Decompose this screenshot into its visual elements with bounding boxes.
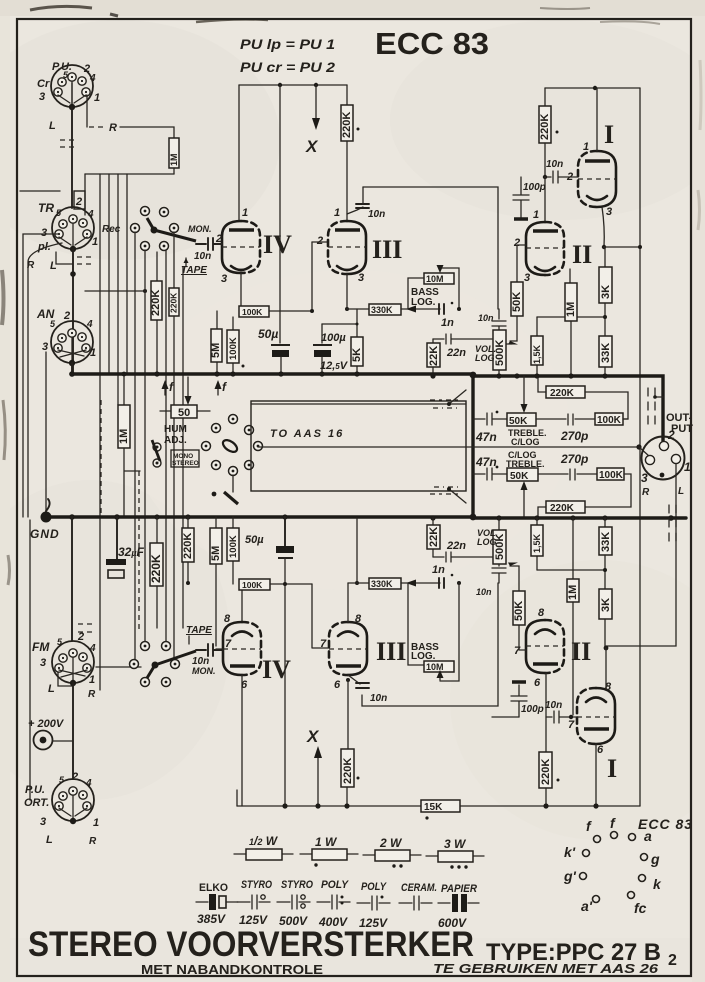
- 3K (lower): [599, 589, 612, 619]
- svg-text:X: X: [306, 727, 320, 746]
- svg-text:+ 200V: + 200V: [28, 718, 65, 730]
- svg-text:TR: TR: [38, 201, 54, 215]
- svg-text:3K: 3K: [600, 598, 612, 612]
- svg-text:8: 8: [224, 613, 231, 625]
- tube I cathode down: [602, 207, 604, 247]
- wire 50u branch: [279, 85, 281, 343]
- svg-text:32µF: 32µF: [118, 545, 145, 559]
- svg-text:3: 3: [221, 273, 227, 285]
- svg-text:I: I: [607, 754, 617, 783]
- thick wire FM to PU ORT: [72, 683, 74, 779]
- tube IV cathode down + 100K: [240, 273, 242, 311]
- svg-text:1M: 1M: [567, 585, 579, 600]
- svg-text:50K: 50K: [510, 471, 529, 482]
- wire AN down to bus: [71, 363, 73, 374]
- triode I (upper): [597, 151, 616, 207]
- svg-text:10n: 10n: [368, 209, 385, 220]
- svg-text:L: L: [46, 834, 53, 846]
- resistor 100K vertical (lower): [232, 517, 234, 584]
- svg-text:33K: 33K: [600, 343, 612, 363]
- triode II (lower): [526, 620, 545, 673]
- svg-text:220K: 220K: [341, 112, 353, 138]
- svg-text:ORT.: ORT.: [24, 797, 49, 809]
- svg-text:IV: IV: [262, 655, 291, 684]
- svg-text:7: 7: [568, 719, 575, 731]
- svg-text:270p: 270p: [560, 429, 588, 443]
- resistor 100K vertical: [232, 317, 234, 374]
- svg-text:22K: 22K: [428, 346, 440, 366]
- svg-text:1M: 1M: [169, 153, 179, 166]
- svg-text:STEREO VOORVERSTERKER: STEREO VOORVERSTERKER: [28, 925, 474, 964]
- svg-text:2: 2: [667, 428, 675, 442]
- svg-text:4: 4: [89, 73, 96, 84]
- svg-text:100K: 100K: [599, 470, 624, 481]
- svg-text:GND: GND: [30, 527, 60, 541]
- svg-text:1,5K: 1,5K: [532, 344, 542, 364]
- pin2 wire + 50K: [517, 245, 526, 282]
- svg-text:4: 4: [87, 209, 94, 220]
- paper smudges: [30, 6, 92, 10]
- resistor 5K: [356, 309, 358, 374]
- resistor 330K (upper): [347, 308, 369, 310]
- svg-text:1n: 1n: [441, 317, 454, 329]
- resistor 100K (horiz lower): [241, 584, 243, 622]
- svg-text:220K: 220K: [550, 503, 575, 514]
- svg-text:P.U.: P.U.: [25, 784, 45, 796]
- top rail right: [545, 87, 640, 89]
- wire TR down: [72, 249, 74, 374]
- svg-text:1: 1: [90, 347, 96, 359]
- svg-text:270p: 270p: [560, 452, 588, 466]
- resistor 220K (right top): [544, 88, 546, 106]
- wires from switch down: [134, 232, 136, 664]
- svg-text:330K: 330K: [371, 579, 393, 589]
- svg-text:1/2 W: 1/2 W: [249, 834, 279, 848]
- triode I (lower): [577, 688, 596, 744]
- resistor 1M (PU right): [169, 138, 179, 168]
- main bus upper (decoupling rail): [71, 372, 473, 375]
- svg-text:8: 8: [538, 607, 545, 619]
- svg-text:220K: 220K: [182, 533, 194, 559]
- svg-text:1: 1: [334, 207, 340, 219]
- svg-text:220K: 220K: [169, 292, 179, 313]
- svg-text:2: 2: [63, 310, 70, 322]
- connector FM: [52, 641, 94, 683]
- rotary selector: [202, 415, 263, 476]
- svg-text:TE GEBRUIKEN MET AAS 26: TE GEBRUIKEN MET AAS 26: [433, 962, 659, 976]
- svg-text:100p: 100p: [523, 182, 546, 193]
- 1,5K (lower): [536, 518, 538, 570]
- f arrows: [164, 385, 166, 395]
- arrow X (lower): [317, 758, 319, 806]
- svg-text:MON.: MON.: [192, 666, 216, 676]
- svg-text:II: II: [572, 240, 592, 269]
- svg-text:R: R: [109, 122, 117, 134]
- svg-text:3: 3: [606, 206, 612, 218]
- svg-text:k: k: [653, 876, 662, 892]
- 500K volume (lower): [498, 518, 500, 530]
- svg-text:6: 6: [334, 679, 341, 691]
- resistor 220K (tube III anode): [346, 85, 348, 105]
- svg-text:5M: 5M: [210, 343, 222, 358]
- top rail left: [239, 84, 347, 86]
- svg-text:X: X: [305, 137, 319, 156]
- capacitor 10n (tape/mon lower): [196, 644, 222, 656]
- resistor 1,5K: [536, 317, 538, 376]
- wire horizontal y174: [85, 173, 174, 175]
- svg-text:2: 2: [215, 233, 222, 245]
- svg-text:III: III: [376, 637, 406, 666]
- pot 10M + BASS LOG (upper): [424, 273, 454, 284]
- connector TR: [52, 207, 94, 249]
- svg-text:Rec: Rec: [102, 224, 121, 235]
- resistor 1M (mid left): [123, 374, 125, 405]
- svg-text:10n: 10n: [546, 159, 563, 170]
- triode IV (lower): [223, 622, 242, 675]
- resistor 220K (second upper): [169, 288, 179, 316]
- svg-text:4: 4: [89, 643, 96, 654]
- arrow X (upper): [315, 85, 317, 118]
- svg-text:7: 7: [320, 638, 327, 650]
- resistor 33K: [599, 336, 612, 367]
- svg-text:C/LOG: C/LOG: [511, 437, 540, 447]
- dashes under PU: [60, 140, 74, 147]
- svg-text:220K: 220K: [550, 388, 575, 399]
- svg-text:7: 7: [514, 645, 521, 657]
- svg-text:TO AAS 16: TO AAS 16: [270, 428, 344, 440]
- svg-text:STEREO: STEREO: [172, 460, 199, 467]
- svg-text:5M: 5M: [210, 546, 222, 561]
- svg-text:I: I: [604, 120, 614, 149]
- svg-text:220K: 220K: [539, 114, 551, 140]
- capacitor 10n (tube III lower): [348, 675, 360, 684]
- svg-text:50µ: 50µ: [245, 534, 264, 546]
- svg-text:3: 3: [524, 272, 530, 284]
- svg-text:1: 1: [92, 236, 98, 248]
- connector P.U. ORT.: [52, 779, 94, 821]
- svg-text:2: 2: [668, 952, 677, 969]
- svg-text:2: 2: [71, 771, 78, 783]
- svg-text:50K: 50K: [513, 601, 525, 621]
- tube I lower cathode: [595, 744, 597, 806]
- svg-text:22n: 22n: [446, 347, 466, 359]
- switch lever (upper): [151, 227, 158, 234]
- svg-text:100p: 100p: [521, 704, 544, 715]
- resistor 330K (lower): [347, 583, 349, 622]
- tube II lower to 220K: [545, 673, 547, 752]
- svg-text:IV: IV: [263, 230, 292, 259]
- svg-text:220K: 220K: [150, 290, 162, 316]
- svg-text:220K: 220K: [342, 758, 354, 784]
- svg-text:3: 3: [41, 227, 47, 239]
- svg-text:STYRO: STYRO: [281, 879, 313, 891]
- svg-text:FM: FM: [32, 640, 50, 654]
- svg-text:1: 1: [533, 209, 539, 221]
- svg-text:2: 2: [75, 196, 82, 208]
- svg-text:ADJ.: ADJ.: [164, 435, 187, 446]
- svg-text:1n: 1n: [432, 564, 445, 576]
- svg-text:4: 4: [85, 778, 92, 789]
- dashes below bus right: [669, 505, 676, 541]
- svg-text:3: 3: [42, 341, 48, 353]
- svg-text:1M: 1M: [565, 302, 577, 317]
- svg-text:47n: 47n: [475, 455, 497, 469]
- svg-text:g': g': [563, 868, 577, 884]
- svg-text:pl.: pl.: [37, 241, 51, 253]
- svg-text:1: 1: [94, 92, 100, 104]
- output L wire down: [606, 464, 676, 646]
- svg-text:10n: 10n: [476, 587, 492, 597]
- svg-text:1: 1: [684, 460, 691, 474]
- svg-text:100K: 100K: [228, 535, 239, 558]
- svg-text:100K: 100K: [228, 337, 239, 360]
- svg-text:220K: 220K: [149, 554, 163, 583]
- wire rail to tube IV anode: [238, 85, 240, 221]
- resistor 220K (lower big): [156, 517, 158, 543]
- svg-text:7: 7: [225, 638, 232, 650]
- output connector: [642, 437, 685, 480]
- svg-text:12,5V: 12,5V: [320, 360, 349, 372]
- svg-text:TAPE: TAPE: [181, 265, 207, 276]
- svg-text:R: R: [89, 836, 97, 847]
- svg-text:10M: 10M: [426, 274, 444, 284]
- wire TR L corner: [56, 252, 72, 264]
- connector P.U.: [51, 65, 93, 107]
- 50K (lower) + wire: [519, 625, 526, 650]
- svg-text:6: 6: [534, 677, 541, 689]
- svg-text:50µ: 50µ: [258, 327, 278, 341]
- svg-text:3: 3: [39, 91, 45, 103]
- triode IV (upper): [222, 221, 241, 273]
- svg-text:2: 2: [316, 235, 323, 247]
- svg-text:k': k': [564, 844, 576, 860]
- svg-text:a': a': [581, 898, 593, 914]
- svg-text:HUM: HUM: [164, 424, 187, 435]
- svg-text:L: L: [48, 683, 55, 695]
- output screen dashes: [648, 388, 655, 424]
- bass log lower: 1n cap: [439, 578, 444, 588]
- svg-text:100K: 100K: [242, 307, 263, 317]
- connector AN: [51, 321, 93, 363]
- svg-text:1 W: 1 W: [315, 835, 338, 849]
- svg-text:ECC 83: ECC 83: [375, 26, 489, 61]
- capacitor 22n + 22K: [433, 334, 492, 344]
- svg-text:8: 8: [355, 613, 362, 625]
- svg-text:MET NABANDKONTROLE: MET NABANDKONTROLE: [141, 962, 323, 977]
- triode II (upper): [526, 222, 545, 275]
- svg-text:2 W: 2 W: [379, 836, 403, 850]
- dashes under TR: [77, 257, 94, 264]
- svg-text:1: 1: [583, 141, 589, 153]
- main bus lower (ground): [46, 515, 473, 518]
- svg-text:1: 1: [93, 817, 99, 829]
- resistor 220K (tone top): [546, 386, 585, 398]
- svg-text:330K: 330K: [371, 305, 393, 315]
- svg-text:L: L: [49, 120, 56, 132]
- mono/stereo switch: [153, 443, 161, 451]
- long vertical right: [639, 88, 641, 806]
- svg-text:50K: 50K: [511, 292, 523, 312]
- svg-text:STYRO: STYRO: [241, 879, 272, 891]
- svg-text:R: R: [88, 689, 96, 700]
- svg-text:1: 1: [242, 207, 248, 219]
- svg-text:L: L: [678, 486, 684, 497]
- resistor 1M (upper): [569, 269, 571, 283]
- svg-text:1,5K: 1,5K: [532, 533, 542, 553]
- resistor 220K (left pair upper): [156, 252, 158, 374]
- svg-text:5K: 5K: [351, 348, 363, 362]
- svg-text:II: II: [571, 637, 591, 666]
- svg-text:10n: 10n: [370, 693, 387, 704]
- svg-text:MON.: MON.: [188, 224, 212, 234]
- svg-text:MONO: MONO: [173, 453, 193, 460]
- svg-text:POLY: POLY: [361, 881, 387, 893]
- svg-text:TAPE: TAPE: [186, 625, 212, 636]
- triode III (upper): [347, 221, 366, 274]
- wire tube III lower to 220K: [347, 680, 349, 749]
- svg-text:CERAM.: CERAM.: [401, 882, 437, 894]
- capacitor 10n (tube III anode top): [347, 207, 363, 214]
- svg-text:PU lp = PU 1: PU lp = PU 1: [240, 36, 335, 52]
- svg-text:R: R: [642, 487, 650, 498]
- resistor 3K: [604, 247, 606, 267]
- svg-text:fc: fc: [634, 900, 647, 916]
- resistor 100K (horiz upper): [239, 306, 269, 317]
- triode III (lower): [348, 622, 367, 675]
- resistor 5M (lower): [215, 517, 217, 528]
- feedback loop upper: [363, 187, 498, 309]
- hum pot 50: [187, 377, 189, 398]
- 1M (lower): [572, 518, 574, 579]
- capacitor 10n (tape/mon upper): [196, 238, 222, 250]
- svg-text:LOG: LOG: [475, 353, 495, 363]
- vertical wire bundle: [99, 174, 101, 690]
- svg-text:LOG: LOG: [477, 537, 497, 547]
- svg-text:3: 3: [40, 657, 46, 669]
- svg-text:Cr: Cr: [37, 78, 50, 90]
- wire PU to TR (thick): [71, 107, 73, 208]
- svg-text:4: 4: [86, 319, 93, 330]
- svg-text:POLY: POLY: [321, 879, 350, 891]
- bottom rail + 15K: [237, 805, 421, 807]
- svg-text:PU cr = PU 2: PU cr = PU 2: [240, 59, 335, 75]
- 33K (lower): [604, 518, 606, 527]
- svg-text:3 W: 3 W: [444, 837, 467, 851]
- feedback loop lower: [362, 583, 498, 706]
- capacitor 1n (upper): [439, 304, 444, 314]
- svg-text:15K: 15K: [424, 802, 443, 813]
- 22n + 22K (lower): [433, 552, 492, 562]
- resistor 220K (lower second): [187, 517, 189, 528]
- svg-text:22n: 22n: [446, 540, 466, 552]
- svg-text:220K: 220K: [540, 759, 552, 785]
- svg-text:50K: 50K: [509, 416, 528, 427]
- svg-text:3: 3: [40, 816, 46, 828]
- resistor 220K (tone bottom): [546, 501, 585, 513]
- svg-text:100K: 100K: [242, 580, 263, 590]
- tube III cathode node: [346, 274, 348, 309]
- svg-text:3: 3: [641, 471, 648, 485]
- svg-text:10M: 10M: [426, 662, 444, 672]
- svg-text:1M: 1M: [118, 429, 130, 444]
- svg-text:g: g: [650, 851, 660, 867]
- treble pot upper row: 47n cap, 50K, 270p, 100K: [473, 413, 507, 425]
- svg-text:III: III: [372, 235, 402, 264]
- svg-text:22K: 22K: [428, 527, 440, 547]
- svg-text:100µ: 100µ: [321, 332, 346, 344]
- svg-text:a: a: [644, 828, 652, 844]
- svg-text:50: 50: [178, 407, 190, 419]
- TR frame box: [74, 191, 85, 209]
- svg-text:33K: 33K: [600, 532, 612, 552]
- svg-text:P.U.: P.U.: [52, 61, 72, 73]
- resistor 5M: [216, 311, 218, 374]
- cap stub into pin2: [216, 243, 222, 245]
- svg-text:2: 2: [77, 631, 84, 643]
- tone control box: [471, 374, 474, 518]
- svg-text:3K: 3K: [600, 285, 612, 299]
- svg-text:100K: 100K: [597, 415, 622, 426]
- svg-text:3: 3: [358, 272, 364, 284]
- TO AAS16 cable box: [251, 401, 466, 491]
- ground terminal: [46, 499, 50, 511]
- svg-text:1: 1: [89, 674, 95, 686]
- wire R dashed to resistor: [86, 95, 88, 127]
- svg-text:ELKO: ELKO: [199, 882, 228, 894]
- svg-text:PAPIER: PAPIER: [441, 883, 477, 895]
- svg-text:6: 6: [597, 744, 604, 756]
- svg-text:10n: 10n: [194, 251, 211, 262]
- svg-text:10n: 10n: [545, 700, 562, 711]
- svg-text:385V: 385V: [197, 912, 226, 926]
- thick wire bus to FM: [71, 517, 73, 641]
- svg-text:47n: 47n: [475, 430, 497, 444]
- svg-text:LOG.: LOG.: [411, 297, 436, 308]
